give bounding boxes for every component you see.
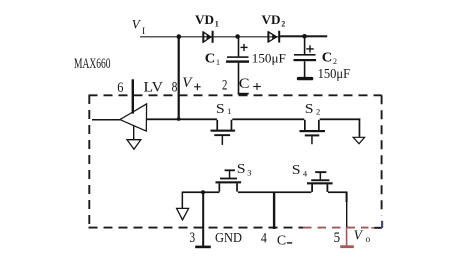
wire pin 4 vertical xyxy=(273,193,275,230)
ground stem bottom left xyxy=(182,192,184,208)
polarity plus C1 xyxy=(241,44,248,51)
svg-text:1: 1 xyxy=(216,58,220,67)
node A junction Vin xyxy=(177,34,182,39)
svg-text:4: 4 xyxy=(303,169,308,179)
switch S4 xyxy=(307,171,333,192)
ground under triangle xyxy=(127,140,141,150)
svg-text:3: 3 xyxy=(247,168,251,178)
wire oscillator output (left of triangle) xyxy=(92,119,120,121)
terminal cap pin 5 (red) xyxy=(340,245,354,248)
dashed box MAX660 left edge xyxy=(88,95,90,228)
svg-text:8: 8 xyxy=(172,79,178,95)
terminal cap pin 3 xyxy=(195,246,211,249)
switch S1 xyxy=(211,120,236,145)
diode VD1 xyxy=(202,31,213,43)
node B junction C1 xyxy=(235,34,240,39)
svg-text:o: o xyxy=(366,235,371,245)
svg-text:C: C xyxy=(205,52,216,67)
wire pin 2 C+ vertical xyxy=(238,63,240,95)
svg-text:C: C xyxy=(322,51,333,66)
capacitor C2 xyxy=(294,37,317,77)
svg-text:1: 1 xyxy=(227,106,231,116)
wire pin 5 vertical black xyxy=(346,192,348,202)
wire pin 8 V+ vertical xyxy=(178,37,180,120)
ground stem under triangle xyxy=(133,125,134,139)
svg-text:S: S xyxy=(305,102,314,117)
svg-text:I: I xyxy=(142,27,145,37)
dashed box MAX660 bottom edge (red part) xyxy=(303,227,369,229)
svg-text:150μF: 150μF xyxy=(252,51,286,66)
svg-text:1: 1 xyxy=(215,20,219,29)
dashed box MAX660 right edge xyxy=(381,95,383,215)
diode VD2 xyxy=(267,31,280,43)
svg-text:4: 4 xyxy=(261,231,267,247)
wire rail S1 to S2 xyxy=(232,118,304,120)
svg-text:2: 2 xyxy=(333,57,337,66)
svg-text:2: 2 xyxy=(316,107,320,117)
ground bar C2 xyxy=(297,77,314,80)
dashed box MAX660 bottom-right corner xyxy=(371,227,374,229)
capacitor C1 xyxy=(226,37,249,63)
node junction pin8-rail xyxy=(177,117,181,121)
svg-text:2: 2 xyxy=(222,77,227,93)
wire pin 5 vertical red xyxy=(346,227,348,246)
dashed box MAX660 top edge xyxy=(89,94,382,96)
switch S3 xyxy=(216,169,242,191)
svg-text:GND: GND xyxy=(215,230,242,245)
dashed box MAX660 bottom edge (black part) xyxy=(89,227,304,229)
wire top rail Vin xyxy=(140,36,281,37)
wire rail V+ to S1 xyxy=(146,118,217,120)
wire pin 6 LV vertical xyxy=(132,79,134,113)
svg-text:6: 6 xyxy=(117,80,124,96)
svg-text:VD: VD xyxy=(195,12,214,27)
switch S2 xyxy=(300,120,326,144)
node C junction C2 xyxy=(302,34,307,39)
ground bottom left xyxy=(177,208,189,219)
svg-text:S: S xyxy=(216,102,225,117)
wire bottom rail S3 to S4 xyxy=(238,191,312,193)
wire rail S2 to right ground xyxy=(320,118,361,120)
ground right xyxy=(353,137,364,143)
svg-text:LV: LV xyxy=(144,80,164,96)
svg-text:3: 3 xyxy=(189,230,195,246)
svg-text:C: C xyxy=(239,76,250,92)
wire right ground drop xyxy=(359,118,361,136)
node junction pin3 xyxy=(201,190,205,194)
svg-text:5: 5 xyxy=(334,230,341,246)
polarity plus C2 xyxy=(306,45,313,52)
svg-text:MAX660: MAX660 xyxy=(74,56,111,72)
svg-text:VD: VD xyxy=(262,12,281,27)
svg-text:S: S xyxy=(237,162,246,177)
svg-text:C: C xyxy=(277,233,286,248)
svg-text:S: S xyxy=(292,163,301,178)
wire bottom rail left segment xyxy=(182,191,220,193)
wire pin 3 vertical xyxy=(202,192,204,247)
svg-text:150μF: 150μF xyxy=(318,66,351,81)
wire bottom rail S4 to pin5 corner xyxy=(328,191,348,193)
svg-text:2: 2 xyxy=(281,20,285,29)
op-amp U1 oscillator triangle xyxy=(120,104,147,131)
